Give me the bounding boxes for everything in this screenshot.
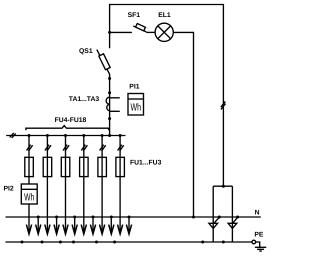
group bracket FU4-FU18 xyxy=(26,126,109,131)
lamp EL1 xyxy=(155,23,173,41)
meter PI1 xyxy=(128,94,144,116)
cable mark on incoming line xyxy=(221,101,226,109)
current transformers TA1...TA3 xyxy=(106,97,120,111)
bus junction nodes xyxy=(28,134,122,137)
svg-text:FU4-FU18: FU4-FU18 xyxy=(55,117,87,124)
N line xyxy=(6,216,261,218)
PE line xyxy=(6,241,253,243)
arrester gap tick 2 with node xyxy=(236,216,239,219)
feeder drop 2 xyxy=(43,136,52,232)
arrester leg 2 xyxy=(231,186,233,242)
wire riser QS1 to bus xyxy=(109,74,111,136)
svg-text:PE: PE xyxy=(254,231,264,238)
arrow feeder 3 xyxy=(63,225,68,234)
feeder drop 3 xyxy=(61,136,70,232)
arrester triangle 2 xyxy=(228,223,237,228)
svg-text:PI1: PI1 xyxy=(129,83,139,90)
N tap arrow 6 xyxy=(126,216,131,235)
node lamp return on N xyxy=(192,216,195,219)
arrester gap tick 1 with node xyxy=(218,216,221,219)
feeder drop 6 xyxy=(116,136,125,232)
svg-text:EL1: EL1 xyxy=(158,12,171,19)
arrow feeder 1 xyxy=(26,225,31,234)
wire top loop: riser top, top horizontal, incoming line xyxy=(110,5,224,187)
arrow feeder 4 xyxy=(81,225,86,234)
svg-text:N: N xyxy=(255,210,260,217)
svg-text:Wh: Wh xyxy=(131,103,142,114)
svg-text:TA1...TA3: TA1...TA3 xyxy=(69,96,100,103)
svg-text:SF1: SF1 xyxy=(128,12,141,19)
node above CT xyxy=(108,91,111,94)
N tap arrow 2 xyxy=(54,216,59,235)
disconnector-fuse QS1 xyxy=(97,50,110,75)
svg-text:QS1: QS1 xyxy=(79,48,93,55)
N tap arrow 1 xyxy=(36,216,41,235)
cable mark on bus left end xyxy=(10,133,16,138)
N tap arrow 3 xyxy=(72,216,77,235)
arrow feeder 5 xyxy=(100,225,105,234)
wire lamp to N riser xyxy=(173,32,193,217)
svg-text:PI2: PI2 xyxy=(4,185,14,192)
arrow feeder 2 xyxy=(45,225,50,234)
svg-text:Wh: Wh xyxy=(24,193,34,204)
meter PI2 xyxy=(21,184,37,204)
node incoming line to arrester bar xyxy=(222,185,225,188)
arrow feeder 6 xyxy=(118,225,123,234)
svg-text:FU1...FU3: FU1...FU3 xyxy=(130,160,162,167)
PE terminal circle xyxy=(252,240,256,244)
N tap arrow 4 xyxy=(90,216,95,235)
node junction of SF1 branch on riser xyxy=(108,31,111,34)
wire PE terminal to ground xyxy=(256,242,260,247)
feeder drop 1 with fuse to PI2 xyxy=(25,136,34,232)
feeder drop 4 xyxy=(80,136,89,232)
bus bar xyxy=(6,135,125,137)
arrester leg 1 xyxy=(212,186,214,242)
arrester bar xyxy=(213,185,232,187)
breaker SF1 xyxy=(133,23,155,32)
PE junction nodes xyxy=(21,241,225,244)
N tap arrow 5 xyxy=(109,216,114,235)
ground xyxy=(255,247,266,251)
node below CT xyxy=(108,117,111,120)
wire SF1 branch left segment xyxy=(110,31,132,33)
arrester triangle 1 xyxy=(209,223,218,228)
node below QS1 xyxy=(108,77,111,80)
feeder drop 5 xyxy=(98,136,107,232)
